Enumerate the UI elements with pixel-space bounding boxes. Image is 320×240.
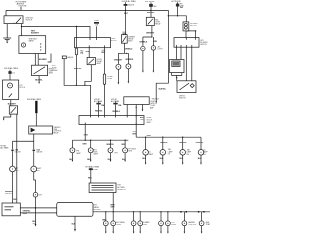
blower resistor box O xyxy=(89,183,116,193)
svg-text:RESISTOR: RESISTOR xyxy=(117,189,126,191)
label: box A right xyxy=(111,38,118,42)
wire: hot fuse col x115.5 xyxy=(113,101,117,115)
svg-text:RELAY: RELAY xyxy=(155,23,161,26)
label: dimmer relay right xyxy=(128,37,136,43)
svg-text:CONTROL: CONTROL xyxy=(188,224,196,226)
label: jog wire labels xyxy=(150,88,167,109)
connector box K xyxy=(170,60,184,73)
label: gauge fuse col xyxy=(122,0,137,15)
svg-text:ALL TIMES: ALL TIMES xyxy=(111,100,120,103)
svg-text:RED/YEL: RED/YEL xyxy=(95,110,103,112)
wire: breaker to blower switch xyxy=(186,30,196,37)
lamps L12-L15 xyxy=(143,150,149,165)
label: box64 xyxy=(67,56,74,59)
svg-text:TAIL: TAIL xyxy=(153,5,156,8)
wire: box M output split xyxy=(13,134,34,149)
wire: relay H output xyxy=(85,65,91,86)
label: below relay R2 xyxy=(124,48,133,50)
instrument box M xyxy=(29,126,53,134)
svg-text:IGN KEY: IGN KEY xyxy=(5,193,13,195)
svg-text:HOT IN RUN: HOT IN RUN xyxy=(145,1,155,3)
label: below box P xyxy=(72,224,76,226)
label: lamp L1 wire xyxy=(139,42,148,44)
label: hot source resistor xyxy=(85,166,100,180)
svg-text:BLK/WHT: BLK/WHT xyxy=(31,32,40,34)
label: box O right xyxy=(117,185,126,191)
fuse F6 xyxy=(103,74,105,116)
wire: hot-in-run fuse column x177.5 xyxy=(176,2,179,16)
label: three dash text xyxy=(52,65,58,72)
bottom lamps L16-L23 xyxy=(103,221,108,234)
lamp L2 xyxy=(151,46,155,73)
junction on accessory bus xyxy=(76,26,77,27)
label: horn relay xyxy=(97,59,103,65)
label: arrow below L7 xyxy=(32,221,37,225)
label: below box C xyxy=(35,79,43,81)
svg-text:GRN/YEL: GRN/YEL xyxy=(179,142,188,144)
svg-text:RELAY: RELAY xyxy=(53,132,59,135)
svg-text:BLK/WHT: BLK/WHT xyxy=(8,103,17,105)
label: lamp L7 xyxy=(39,194,43,196)
label: blu/yel xyxy=(74,68,82,70)
lamp L1 xyxy=(141,46,145,72)
ground G1 xyxy=(3,24,11,43)
junctions on y85.3 line xyxy=(76,85,86,86)
label: below box R xyxy=(140,117,145,121)
svg-text:BLK/YEL: BLK/YEL xyxy=(35,79,43,81)
svg-text:SWITCH: SWITCH xyxy=(179,98,186,100)
defogger switch box L xyxy=(177,81,196,93)
svg-text:BLK/YEL: BLK/YEL xyxy=(159,88,167,90)
svg-text:HOT AT ALL TIMES: HOT AT ALL TIMES xyxy=(27,98,42,101)
wire: right end drop of main bus xyxy=(155,10,168,103)
wire: box D to switch E xyxy=(10,100,12,106)
svg-text:BLOCK: BLOCK xyxy=(111,40,118,42)
label: lamp L4 wire xyxy=(125,59,134,61)
label: box C right xyxy=(49,69,55,75)
label: blk below box A xyxy=(86,51,90,53)
labels: upper lamp bus lamps xyxy=(147,135,152,137)
wire: drop to hazard fuse xyxy=(76,27,78,49)
circuit breaker CB (two circles) xyxy=(183,22,189,31)
ignition switch SW1 xyxy=(4,16,23,24)
label: wire to bottom bus xyxy=(110,204,115,208)
key switch box N xyxy=(2,203,20,216)
label: blower switch xyxy=(200,40,208,46)
label: ignition switch xyxy=(26,18,34,22)
svg-text:ALL TIMES: ALL TIMES xyxy=(94,100,103,103)
fuse block box Q xyxy=(79,116,144,125)
clock box D xyxy=(3,70,19,100)
label: hazard fuse xyxy=(80,49,84,54)
svg-text:GRN/YEL: GRN/YEL xyxy=(160,142,169,144)
wire: resistor to bottom bus xyxy=(112,193,114,212)
wires: box R outputs xyxy=(127,105,143,138)
svg-text:GRN/WHT: GRN/WHT xyxy=(146,33,155,35)
wire: hot fuse col x98.6 xyxy=(96,101,100,115)
label: fusible link xyxy=(27,98,42,101)
wires: box N to box P xyxy=(20,207,56,213)
label: second below box A xyxy=(101,50,106,54)
wire: ignition feed drop xyxy=(6,7,21,16)
rheostat box C xyxy=(32,54,52,76)
svg-text:GAUGE: GAUGE xyxy=(128,4,135,7)
label: lamp L3 wire xyxy=(114,59,123,61)
wire: box A to fuse I xyxy=(104,48,106,74)
label: fuse F6 xyxy=(107,76,113,80)
labels: box N xyxy=(5,191,18,201)
label: box Q right xyxy=(147,117,154,124)
svg-text:GRN/BLU: GRN/BLU xyxy=(124,48,133,50)
lamp L4 xyxy=(126,64,131,84)
tail light relay R1 xyxy=(146,17,154,25)
label: tail fuse col xyxy=(145,1,157,14)
heater blower switch box (right) xyxy=(174,38,199,48)
lamp L6 xyxy=(31,166,37,192)
fuse dashes xyxy=(11,150,35,166)
label: hot98 xyxy=(94,98,105,112)
labels: lower lamp bus lamps xyxy=(82,144,125,146)
svg-text:BLU/RED: BLU/RED xyxy=(39,59,47,61)
svg-text:BUZZER: BUZZER xyxy=(94,209,101,211)
label: box L below xyxy=(179,96,186,100)
wires: blower switch outputs xyxy=(177,47,192,81)
svg-text:BLU/YEL: BLU/YEL xyxy=(74,68,82,70)
upper lamp bus xyxy=(136,137,201,150)
svg-text:GAUGE: GAUGE xyxy=(36,151,43,154)
label: grn/wht below relay xyxy=(146,33,155,35)
wire: box C ground xyxy=(38,76,40,84)
fuse F4 (hazard) xyxy=(75,48,77,85)
label: box D top xyxy=(4,67,19,75)
svg-text:WARN: WARN xyxy=(29,40,35,43)
svg-text:GRN/YEL: GRN/YEL xyxy=(196,142,205,144)
label: htr fuse col xyxy=(171,1,184,9)
label: lamp L2 wire xyxy=(153,41,158,43)
label: box D right xyxy=(19,85,26,89)
svg-text:HOT AT ALL TIMES: HOT AT ALL TIMES xyxy=(4,67,19,70)
lamps L8-L11 xyxy=(70,148,75,162)
thick fusible link column xyxy=(35,101,37,126)
svg-text:GAUGE: GAUGE xyxy=(67,56,74,59)
lamp L7 xyxy=(33,192,38,226)
svg-text:SWITCH: SWITCH xyxy=(200,44,207,46)
dimmer relay R2 xyxy=(121,35,127,44)
wire: box P ground xyxy=(74,216,76,231)
label: box R right xyxy=(150,101,157,105)
svg-text:HOT AT ALL TIMES: HOT AT ALL TIMES xyxy=(122,0,137,3)
fuse block box A xyxy=(75,38,111,48)
svg-text:ALL TIMES: ALL TIMES xyxy=(0,146,9,149)
wire: relay R2 output tee xyxy=(118,43,128,64)
label: wht wire xyxy=(31,30,40,34)
label: box P right xyxy=(94,205,101,211)
lamp L5 xyxy=(10,166,16,203)
svg-text:RED/BLK: RED/BLK xyxy=(152,98,160,100)
svg-text:GRN/BLK: GRN/BLK xyxy=(139,42,148,44)
svg-text:DOME: DOME xyxy=(93,169,99,171)
label: box M right xyxy=(53,127,61,135)
wire: relay R1 output tee xyxy=(143,26,154,47)
svg-text:IGN FUSE: IGN FUSE xyxy=(19,6,28,8)
wire: heater feed line y15.8 xyxy=(168,15,187,22)
svg-text:CLOCK: CLOCK xyxy=(19,87,26,89)
label: box Q bottom right xyxy=(132,131,137,135)
relay box P xyxy=(57,203,93,217)
lower lamp bus xyxy=(72,140,128,148)
wire: box K outputs xyxy=(172,73,182,81)
label: box Q bottom left xyxy=(84,135,89,137)
svg-text:SWITCH: SWITCH xyxy=(26,20,33,22)
light switch box R xyxy=(124,97,149,105)
wire: tail fuse column x151 xyxy=(149,2,153,17)
wire: gauge fuse column x125.5 xyxy=(124,2,128,35)
labels: H split fuses xyxy=(15,149,44,154)
wire: box A to relay H xyxy=(88,48,90,58)
horn relay H xyxy=(87,57,95,64)
label: box B to C wires xyxy=(39,59,47,61)
svg-text:GRN/WHT: GRN/WHT xyxy=(114,59,123,61)
wire: small box64 source column xyxy=(62,56,90,116)
wires from switch E xyxy=(3,114,17,203)
gauge assembly box B xyxy=(19,36,46,54)
label: box E xyxy=(8,103,17,105)
svg-text:RED/BLU: RED/BLU xyxy=(112,111,120,113)
labels: bottom lamps xyxy=(102,220,107,222)
svg-text:GRN/YEL: GRN/YEL xyxy=(106,144,115,146)
label: hot in start and run xyxy=(16,1,28,8)
label: a/c lamp xyxy=(158,45,164,50)
lamp L3 xyxy=(116,64,121,84)
labels: lamps L5 L6 xyxy=(16,167,20,172)
svg-text:GRN/RED: GRN/RED xyxy=(125,59,134,61)
wire: box Q left output xyxy=(84,125,86,141)
svg-text:BLK/YEL: BLK/YEL xyxy=(147,12,155,14)
svg-text:GAUGE: GAUGE xyxy=(15,151,22,154)
switch box E xyxy=(9,106,17,114)
wire: main hot bus at top xyxy=(6,9,168,11)
label: tail light relay xyxy=(155,19,161,26)
svg-text:MOTOR: MOTOR xyxy=(190,25,197,27)
label: above dimmer relay xyxy=(122,32,127,36)
connector arrows on bottom bus xyxy=(180,211,204,213)
bottom lamp bus xyxy=(93,211,210,221)
wire: fuse col x96.5 into box A xyxy=(94,20,100,37)
hot source for resistor xyxy=(89,168,93,183)
wire: accessory bus from ignition switch xyxy=(21,24,90,38)
label: circuit breaker xyxy=(190,23,198,27)
label: hot115 xyxy=(111,98,122,113)
